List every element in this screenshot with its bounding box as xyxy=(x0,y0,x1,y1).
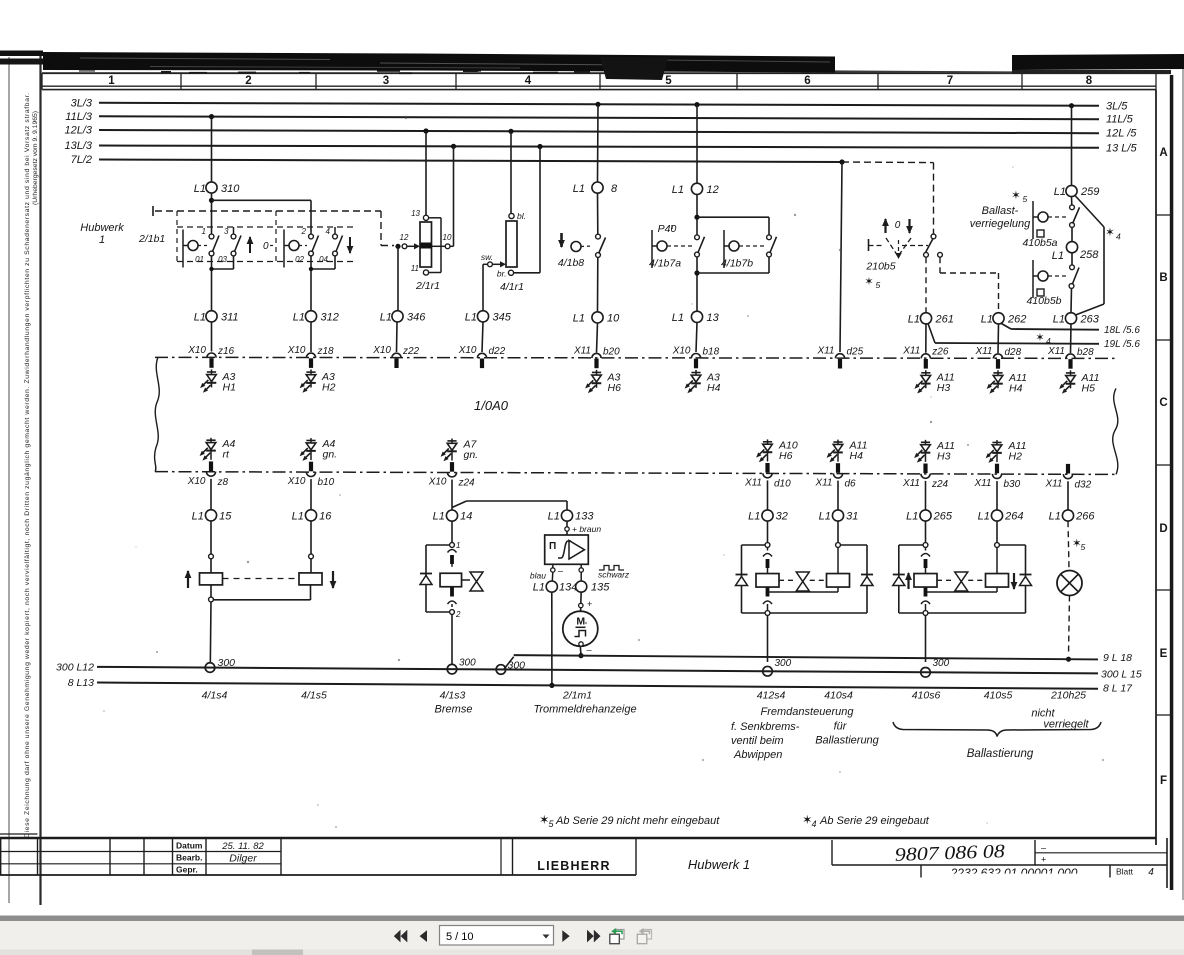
svg-text:10: 10 xyxy=(443,233,452,242)
svg-text:L1: L1 xyxy=(906,511,918,523)
svg-text:✶: ✶ xyxy=(1035,332,1044,344)
svg-text:4: 4 xyxy=(326,227,331,236)
svg-text:412s4: 412s4 xyxy=(757,690,786,702)
svg-text:Diese Zeichnung darf ohne unse: Diese Zeichnung darf ohne unsere Genehmi… xyxy=(24,93,31,838)
svg-text:2: 2 xyxy=(245,75,251,87)
svg-text:L1: L1 xyxy=(194,312,206,324)
svg-text:9807 086 08: 9807 086 08 xyxy=(894,841,1005,866)
svg-text:H1: H1 xyxy=(223,381,236,393)
svg-text:135: 135 xyxy=(591,582,610,594)
svg-text:8: 8 xyxy=(611,183,618,195)
svg-text:+: + xyxy=(587,599,592,609)
svg-text:4/1b7b: 4/1b7b xyxy=(721,258,753,270)
svg-text:H3: H3 xyxy=(937,382,951,394)
svg-text:L1: L1 xyxy=(194,183,206,195)
svg-text:L1: L1 xyxy=(573,313,585,325)
svg-text:8 L13: 8 L13 xyxy=(68,677,94,689)
svg-text:5: 5 xyxy=(665,75,672,87)
svg-text:z16: z16 xyxy=(217,346,235,357)
svg-text:A: A xyxy=(1159,147,1167,159)
svg-text:–: – xyxy=(1041,843,1046,853)
svg-text:0: 0 xyxy=(895,220,901,231)
svg-text:(Urhebergesetz vom 9. 9.1965): (Urhebergesetz vom 9. 9.1965) xyxy=(32,111,39,205)
svg-text:5: 5 xyxy=(1081,542,1086,552)
svg-text:410b5a: 410b5a xyxy=(1022,237,1057,249)
svg-text:312: 312 xyxy=(321,312,339,324)
svg-text:1: 1 xyxy=(456,541,460,550)
svg-text:d25: d25 xyxy=(847,347,864,358)
svg-text:4: 4 xyxy=(1148,867,1154,878)
svg-text:L1: L1 xyxy=(672,184,684,196)
svg-text:Abwippen: Abwippen xyxy=(733,749,782,761)
svg-text:300 L12: 300 L12 xyxy=(56,662,94,674)
svg-text:✶: ✶ xyxy=(1105,227,1115,239)
svg-text:4: 4 xyxy=(1046,336,1051,346)
svg-text:✶: ✶ xyxy=(864,276,873,288)
svg-text:für: für xyxy=(834,721,848,733)
svg-text:z24: z24 xyxy=(458,477,476,488)
svg-text:0: 0 xyxy=(263,241,269,252)
svg-text:X10: X10 xyxy=(187,476,206,487)
svg-text:gn.: gn. xyxy=(464,449,479,461)
svg-text:F: F xyxy=(1160,775,1167,787)
svg-text:Ballastierung: Ballastierung xyxy=(967,748,1034,760)
svg-text:4: 4 xyxy=(812,819,817,829)
svg-text:31: 31 xyxy=(846,511,858,523)
svg-text:300: 300 xyxy=(933,658,950,669)
svg-text:410s6: 410s6 xyxy=(912,690,941,702)
svg-text:X10: X10 xyxy=(428,476,447,487)
svg-text:3: 3 xyxy=(224,227,229,236)
svg-text:Ballast-: Ballast- xyxy=(982,205,1019,217)
svg-text:X11: X11 xyxy=(902,346,920,357)
svg-text:410s4: 410s4 xyxy=(824,690,853,702)
svg-text:schwarz: schwarz xyxy=(598,570,630,580)
svg-text:210b5: 210b5 xyxy=(865,261,895,273)
svg-text:4: 4 xyxy=(1116,232,1121,242)
svg-text:1: 1 xyxy=(202,227,206,236)
svg-text:sw.: sw. xyxy=(481,252,493,262)
svg-text:Ab Serie 29 eingebaut: Ab Serie 29 eingebaut xyxy=(819,815,930,827)
svg-text:X10: X10 xyxy=(287,476,306,487)
svg-text:300 L 15: 300 L 15 xyxy=(1101,669,1142,681)
svg-text:3: 3 xyxy=(383,75,389,87)
svg-text:3L/3: 3L/3 xyxy=(71,97,93,109)
svg-text:H6: H6 xyxy=(779,450,793,462)
svg-text:11L/3: 11L/3 xyxy=(65,111,93,123)
svg-text:b20: b20 xyxy=(603,346,620,357)
svg-text:X10: X10 xyxy=(287,345,306,356)
svg-text:X11: X11 xyxy=(744,477,762,488)
svg-text:X11: X11 xyxy=(814,478,832,489)
svg-text:X11: X11 xyxy=(973,478,991,489)
svg-text:Dilger: Dilger xyxy=(229,853,257,865)
svg-text:Fremdansteuerung: Fremdansteuerung xyxy=(761,706,855,718)
svg-text:+ braun: + braun xyxy=(572,524,601,534)
svg-text:L1: L1 xyxy=(380,312,392,324)
svg-text:L1: L1 xyxy=(433,511,445,523)
svg-text:X11: X11 xyxy=(573,345,591,356)
svg-text:9 L 18: 9 L 18 xyxy=(1103,652,1132,664)
svg-text:d6: d6 xyxy=(845,479,857,490)
svg-text:verriegelung: verriegelung xyxy=(970,218,1031,230)
svg-text:262: 262 xyxy=(1007,314,1026,326)
svg-text:f. Senkbrems-: f. Senkbrems- xyxy=(731,721,800,733)
svg-text:gn.: gn. xyxy=(323,449,338,461)
svg-text:L1: L1 xyxy=(533,582,545,594)
svg-text:01: 01 xyxy=(195,255,204,264)
svg-text:L1: L1 xyxy=(192,510,204,522)
svg-text:16: 16 xyxy=(319,510,332,522)
svg-text:H2: H2 xyxy=(1009,451,1023,463)
svg-text:L1: L1 xyxy=(1054,186,1066,198)
svg-text:4/1s5: 4/1s5 xyxy=(301,690,327,702)
svg-text:2/1b1: 2/1b1 xyxy=(138,233,165,245)
svg-text:Blatt: Blatt xyxy=(1116,867,1134,877)
svg-text:X11: X11 xyxy=(1047,346,1065,357)
svg-text:133: 133 xyxy=(575,511,594,523)
svg-text:1/0A0: 1/0A0 xyxy=(474,398,509,413)
svg-text:H3: H3 xyxy=(937,450,951,462)
svg-text:L1: L1 xyxy=(908,314,920,326)
svg-text:300: 300 xyxy=(775,658,792,669)
svg-text:L1: L1 xyxy=(548,511,560,523)
svg-text:346: 346 xyxy=(407,312,426,324)
svg-text:L1: L1 xyxy=(978,511,990,523)
svg-text:Datum: Datum xyxy=(176,841,203,851)
svg-text:19L /5.6: 19L /5.6 xyxy=(1104,339,1140,350)
svg-text:H4: H4 xyxy=(707,382,721,394)
svg-text:z26: z26 xyxy=(931,347,949,358)
svg-text:13: 13 xyxy=(411,209,420,218)
svg-text:X10: X10 xyxy=(458,345,477,356)
svg-text:–: – xyxy=(558,566,563,576)
svg-text:8: 8 xyxy=(1086,75,1093,87)
svg-text:1: 1 xyxy=(108,75,115,87)
svg-text:13: 13 xyxy=(707,312,720,324)
svg-text:z8: z8 xyxy=(217,477,229,488)
svg-text:14: 14 xyxy=(460,511,472,523)
svg-text:L1: L1 xyxy=(819,511,831,523)
svg-text:M: M xyxy=(576,616,585,628)
svg-text:310: 310 xyxy=(221,183,240,195)
svg-text:d28: d28 xyxy=(1005,347,1022,358)
svg-text:264: 264 xyxy=(1004,511,1023,523)
svg-text:7L/2: 7L/2 xyxy=(71,154,92,166)
svg-text:5: 5 xyxy=(876,280,881,290)
svg-text:7: 7 xyxy=(947,75,953,87)
svg-text:259: 259 xyxy=(1080,186,1099,198)
svg-text:266: 266 xyxy=(1075,511,1095,523)
svg-text:L1: L1 xyxy=(465,312,477,324)
svg-text:4/1r1: 4/1r1 xyxy=(500,281,524,293)
svg-text:311: 311 xyxy=(221,312,239,324)
svg-text:z18: z18 xyxy=(317,346,335,357)
svg-text:8 L 17: 8 L 17 xyxy=(1103,683,1133,695)
svg-text:4/1b8: 4/1b8 xyxy=(558,257,584,269)
svg-text:300: 300 xyxy=(459,658,476,669)
svg-text:3L/5: 3L/5 xyxy=(1106,100,1128,112)
svg-text:263: 263 xyxy=(1080,314,1100,326)
svg-text:z22: z22 xyxy=(402,346,420,357)
svg-text:265: 265 xyxy=(933,511,953,523)
svg-text:15: 15 xyxy=(219,510,232,522)
svg-text:H6: H6 xyxy=(608,382,622,394)
svg-text:4/1s4: 4/1s4 xyxy=(202,690,228,702)
svg-text:11L/5: 11L/5 xyxy=(1106,114,1134,126)
svg-text:rt: rt xyxy=(223,448,230,460)
svg-text:6: 6 xyxy=(804,75,810,87)
svg-text:Ab Serie 29 nicht mehr eingeba: Ab Serie 29 nicht mehr eingebaut xyxy=(555,815,720,827)
svg-text:4/1s3: 4/1s3 xyxy=(440,690,466,702)
svg-text:345: 345 xyxy=(493,312,512,324)
svg-text:L1: L1 xyxy=(672,312,684,324)
svg-text:5 / 10: 5 / 10 xyxy=(446,931,474,943)
svg-text:2: 2 xyxy=(301,227,307,236)
svg-text:12L/3: 12L/3 xyxy=(64,125,92,137)
svg-text:E: E xyxy=(1160,648,1168,660)
svg-text:X11: X11 xyxy=(974,346,992,357)
svg-text:11: 11 xyxy=(411,264,419,273)
svg-text:258: 258 xyxy=(1079,249,1099,261)
svg-text:D: D xyxy=(1159,523,1167,535)
svg-text:13L/3: 13L/3 xyxy=(64,140,92,152)
svg-text:410s5: 410s5 xyxy=(984,690,1013,702)
svg-text:verriegelt: verriegelt xyxy=(1043,719,1089,731)
svg-text:02: 02 xyxy=(295,255,304,264)
svg-text:Hubwerk 1: Hubwerk 1 xyxy=(688,857,750,872)
svg-text:12: 12 xyxy=(400,233,409,242)
svg-text:4/1b7a: 4/1b7a xyxy=(649,258,681,270)
svg-text:210h25: 210h25 xyxy=(1050,690,1086,702)
svg-text:X11: X11 xyxy=(1044,478,1062,489)
svg-text:4: 4 xyxy=(525,75,532,87)
svg-text:blau: blau xyxy=(530,571,546,581)
svg-text:H2: H2 xyxy=(322,382,336,394)
svg-text:d22: d22 xyxy=(489,346,506,357)
svg-text:1: 1 xyxy=(99,234,105,246)
svg-text:b10: b10 xyxy=(318,477,335,488)
svg-text:d32: d32 xyxy=(1075,479,1092,490)
svg-text:b30: b30 xyxy=(1004,479,1021,490)
svg-text:d10: d10 xyxy=(774,478,791,489)
svg-text:L1: L1 xyxy=(1049,511,1061,523)
svg-text:B: B xyxy=(1159,272,1167,284)
svg-text:13 L/5: 13 L/5 xyxy=(1106,142,1137,154)
svg-text:L1: L1 xyxy=(573,183,585,195)
svg-text:18L /5.6: 18L /5.6 xyxy=(1104,325,1140,336)
svg-text:L1: L1 xyxy=(292,510,304,522)
svg-text:12: 12 xyxy=(707,184,719,196)
svg-text:H4: H4 xyxy=(1009,382,1023,394)
svg-text:X11: X11 xyxy=(902,478,920,489)
svg-text:H5: H5 xyxy=(1082,382,1096,394)
svg-text:2/1m1: 2/1m1 xyxy=(562,690,592,702)
svg-text:H4: H4 xyxy=(850,450,864,462)
svg-text:X11: X11 xyxy=(816,346,834,357)
svg-text:L1: L1 xyxy=(981,314,993,326)
svg-text:br.: br. xyxy=(497,269,507,279)
svg-text:Ballastierung: Ballastierung xyxy=(815,735,879,747)
svg-text:Gepr.: Gepr. xyxy=(176,865,198,875)
svg-text:b28: b28 xyxy=(1077,347,1094,358)
svg-text:12L /5: 12L /5 xyxy=(1106,128,1137,140)
svg-text:b18: b18 xyxy=(703,346,720,357)
svg-text:25. 11. 82: 25. 11. 82 xyxy=(221,841,264,852)
svg-text:L1: L1 xyxy=(748,511,760,523)
svg-text:+: + xyxy=(1041,855,1046,865)
svg-text:P40: P40 xyxy=(658,223,677,235)
svg-text:5: 5 xyxy=(1023,194,1028,204)
svg-text:Bearb.: Bearb. xyxy=(176,853,202,863)
svg-text:10: 10 xyxy=(607,313,620,325)
svg-text:410b5b: 410b5b xyxy=(1026,295,1061,307)
svg-text:Trommeldrehanzeige: Trommeldrehanzeige xyxy=(533,704,636,716)
svg-text:Hubwerk: Hubwerk xyxy=(80,222,124,234)
svg-text:Π: Π xyxy=(549,541,556,552)
svg-text:03: 03 xyxy=(218,255,227,264)
svg-text:X10: X10 xyxy=(672,345,691,356)
svg-text:261: 261 xyxy=(935,314,954,326)
svg-text:X10: X10 xyxy=(187,345,206,356)
svg-text:C: C xyxy=(1159,397,1167,409)
svg-text:2/1r1: 2/1r1 xyxy=(415,280,440,292)
svg-text:32: 32 xyxy=(776,511,788,523)
svg-text:ventil beim: ventil beim xyxy=(731,735,784,747)
svg-text:LIEBHERR: LIEBHERR xyxy=(537,859,611,873)
svg-text:X10: X10 xyxy=(372,345,391,356)
svg-text:bl.: bl. xyxy=(517,211,526,221)
svg-text:L1: L1 xyxy=(293,312,305,324)
svg-text:2: 2 xyxy=(455,610,461,619)
svg-text:✶: ✶ xyxy=(1011,190,1021,202)
svg-text:z24: z24 xyxy=(931,479,949,490)
svg-text:134: 134 xyxy=(559,582,577,594)
svg-text:–: – xyxy=(587,645,592,655)
svg-text:L1: L1 xyxy=(1052,250,1064,262)
svg-text:04: 04 xyxy=(319,255,328,264)
svg-text:Bremse: Bremse xyxy=(435,704,473,716)
svg-text:L1: L1 xyxy=(1053,314,1065,326)
